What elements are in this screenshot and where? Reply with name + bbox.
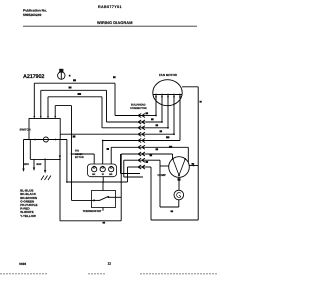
- svg-text:BR: BR: [109, 173, 113, 176]
- svg-text:Publication No.: Publication No.: [23, 8, 47, 12]
- svg-text:W: W: [102, 173, 105, 176]
- svg-text:B/W: B/W: [37, 163, 43, 166]
- svg-text:RAB077Y01: RAB077Y01: [98, 5, 122, 9]
- svg-text:W/O: W/O: [24, 163, 29, 166]
- svg-text:Y-YELLOW: Y-YELLOW: [20, 214, 36, 218]
- svg-text:BK: BK: [92, 173, 96, 176]
- svg-text:12: 12: [108, 262, 112, 266]
- svg-text:A217902: A217902: [23, 74, 44, 80]
- svg-text:FAN MOTOR: FAN MOTOR: [159, 73, 178, 77]
- svg-text:THERMOSTAT: THERMOSTAT: [83, 209, 102, 213]
- svg-text:WIRING DIAGRAM: WIRING DIAGRAM: [97, 20, 133, 25]
- svg-text:5995260249: 5995260249: [23, 13, 42, 17]
- svg-text:COMP: COMP: [158, 173, 167, 177]
- svg-text:CONNECTOR: CONNECTOR: [130, 107, 147, 110]
- svg-text:ECTOR: ECTOR: [75, 156, 84, 159]
- svg-text:SWITCH: SWITCH: [20, 127, 31, 131]
- svg-text:0498: 0498: [19, 262, 26, 266]
